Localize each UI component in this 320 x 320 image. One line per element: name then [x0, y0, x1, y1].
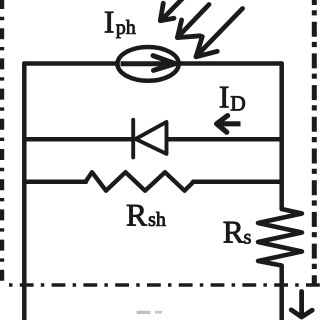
Rsh wire left: [24, 180, 86, 185]
label Rsh: [127, 205, 147, 226]
current source U1 ellipse: [118, 47, 179, 81]
current source arrow: [121, 56, 176, 71]
label Iph: [105, 12, 113, 33]
label ID: [220, 87, 228, 108]
diode wire left: [24, 137, 131, 142]
diode D1 bar: [131, 120, 135, 158]
V label remnant (cropped): [137, 311, 151, 314]
ID current arrow (left): [217, 116, 241, 133]
right dash-dot border: [312, 0, 317, 284]
right rail upper: [279, 64, 284, 210]
left rail wire: [22, 64, 27, 320]
top wire left segment: [24, 61, 116, 66]
diode wire right: [168, 137, 282, 142]
resistor Rs zigzag: [258, 209, 302, 266]
Rsh wire right: [193, 180, 282, 185]
resistor Rsh zigzag: [86, 172, 194, 191]
light arrow 2: [177, 5, 209, 38]
top wire right segment: [180, 61, 282, 66]
bottom dash-dot border: [9, 283, 320, 287]
light arrow 1: [160, 0, 183, 21]
diode D1 triangle: [136, 122, 167, 154]
left dash-dot border: [0, 0, 4, 282]
light arrow 3: [196, 9, 243, 57]
right rail lower: [279, 266, 284, 320]
label Rs: [224, 222, 244, 243]
output current arrow down: [291, 292, 312, 318]
